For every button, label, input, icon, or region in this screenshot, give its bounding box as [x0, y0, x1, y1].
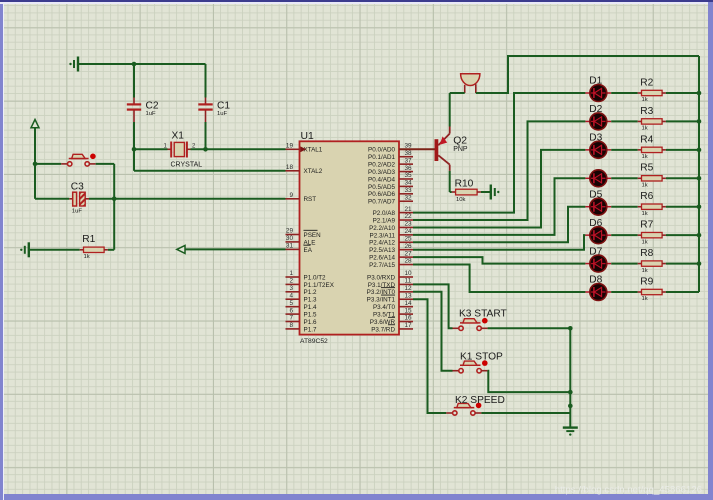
- svg-text:P1.5: P1.5: [304, 312, 317, 319]
- U1 pin 29 PSEN: [286, 228, 322, 239]
- svg-text:C2: C2: [146, 100, 159, 111]
- wire XTAL2 net: [134, 149, 286, 171]
- svg-text:C3: C3: [71, 181, 84, 192]
- svg-text:K1 STOP: K1 STOP: [460, 352, 503, 363]
- U1 pin 5 P1.4: [286, 300, 317, 311]
- U1 pin 12 P3.2/INT0: [367, 285, 413, 296]
- svg-text:11: 11: [405, 278, 412, 285]
- wire D8 to R9: [611, 291, 638, 293]
- power arrow terminal: [31, 120, 39, 164]
- svg-text:R3: R3: [640, 106, 653, 117]
- buzzer: [461, 74, 480, 93]
- svg-text:C1: C1: [217, 100, 230, 111]
- resistor R8: [638, 248, 666, 274]
- svg-text:3: 3: [289, 285, 293, 292]
- svg-text:P0.7/AD7: P0.7/AD7: [368, 199, 395, 206]
- capacitor C3: [35, 181, 89, 214]
- svg-text:28: 28: [405, 258, 413, 265]
- wire P2.4 to D5: [413, 207, 585, 243]
- svg-text:PSEN: PSEN: [304, 232, 322, 239]
- svg-text:D3: D3: [589, 133, 602, 144]
- svg-text:P2.4/A12: P2.4/A12: [369, 240, 395, 247]
- capacitor C1: [198, 64, 230, 149]
- wire K1 to bus: [488, 371, 571, 392]
- U1 pin 18 XTAL2: [286, 164, 323, 175]
- svg-text:P2.1/A9: P2.1/A9: [373, 217, 396, 224]
- svg-text:21: 21: [405, 206, 413, 213]
- svg-text:22: 22: [405, 213, 413, 220]
- junction: [697, 119, 702, 124]
- svg-text:32: 32: [405, 194, 413, 201]
- svg-text:1k: 1k: [642, 211, 648, 217]
- svg-text:1k: 1k: [642, 182, 648, 188]
- U1 pin 19 XTAL1: [286, 143, 323, 154]
- U1 pin 23 P2.2/A10: [369, 221, 413, 232]
- svg-text:AT89C52: AT89C52: [300, 338, 328, 345]
- wire D2 to R3: [611, 120, 638, 122]
- wire buzzer left to emitter: [450, 92, 465, 94]
- junction: [112, 197, 117, 202]
- wire bus to ground: [569, 328, 571, 427]
- watermark text: [555, 485, 702, 496]
- wire XTAL1 net: [134, 148, 286, 150]
- svg-text:P0.1/AD1: P0.1/AD1: [368, 154, 395, 161]
- wire R4 to bus: [666, 149, 699, 151]
- wire R2 to bus: [666, 92, 699, 94]
- wire EA: [185, 248, 286, 250]
- svg-text:6: 6: [289, 307, 293, 314]
- svg-text:XTAL1: XTAL1: [304, 147, 323, 154]
- svg-text:D1: D1: [589, 76, 602, 87]
- svg-text:19: 19: [286, 143, 294, 150]
- ground: [69, 57, 78, 72]
- resistor R9: [638, 276, 666, 302]
- transistor Q2 PNP: [435, 127, 468, 171]
- wire button to vertical: [96, 164, 115, 250]
- svg-text:D5: D5: [589, 189, 602, 200]
- svg-text:34: 34: [405, 180, 413, 187]
- U1 pin 33 P0.6/AD6: [368, 187, 413, 198]
- LED D8: [585, 275, 611, 301]
- U1 pin 25 P2.4/A12: [369, 235, 413, 246]
- junction: [568, 404, 573, 409]
- svg-text:10k: 10k: [456, 197, 466, 203]
- LED D6: [585, 218, 611, 244]
- crystal X1: [163, 131, 202, 169]
- U1 pin 7 P1.6: [286, 315, 317, 326]
- push button K1 STOP: [453, 352, 504, 373]
- svg-text:7: 7: [289, 315, 293, 322]
- junction: [697, 261, 702, 266]
- resistor R3: [638, 106, 666, 132]
- LED D2: [585, 104, 611, 130]
- svg-text:R10: R10: [455, 179, 474, 190]
- U1 pin 10 P3.0/RXD: [367, 270, 413, 281]
- svg-text:P1.2: P1.2: [304, 289, 317, 296]
- wire right bus: [698, 56, 700, 292]
- resistor R4: [638, 134, 666, 160]
- svg-text:R7: R7: [640, 220, 653, 231]
- svg-text:PNP: PNP: [453, 146, 468, 153]
- junction: [697, 233, 702, 238]
- svg-text:D8: D8: [589, 275, 602, 286]
- svg-text:1k: 1k: [642, 97, 648, 103]
- svg-text:R8: R8: [640, 248, 653, 259]
- U1 pin 21 P2.0/A8: [373, 206, 413, 217]
- wire D6 to R7: [611, 234, 638, 236]
- svg-text:P1.1/T2EX: P1.1/T2EX: [304, 282, 335, 289]
- resistor R1: [80, 234, 108, 260]
- LED D4: [585, 170, 611, 187]
- svg-text:P0.3/AD3: P0.3/AD3: [368, 169, 395, 176]
- svg-text:31: 31: [286, 243, 294, 250]
- U1 pin 15 P3.5/T1: [373, 307, 413, 318]
- U1 pin 3 P1.2: [286, 285, 317, 296]
- junction: [33, 162, 38, 167]
- wire P2.0 to D1: [413, 93, 585, 213]
- wire P2.5 to D6: [413, 235, 585, 250]
- svg-text:25: 25: [405, 235, 413, 242]
- junction: [697, 204, 702, 209]
- svg-text:CRYSTAL: CRYSTAL: [171, 161, 203, 168]
- svg-text:X1: X1: [172, 131, 185, 142]
- U1 pin 28 P2.7/A15: [369, 258, 413, 269]
- wire P2.3 to D4: [413, 178, 585, 235]
- wire R1 to vertical: [108, 249, 114, 251]
- wire K2 to bus: [481, 412, 570, 414]
- svg-text:16: 16: [405, 315, 413, 322]
- svg-text:1k: 1k: [642, 296, 648, 302]
- svg-text:14: 14: [405, 300, 413, 307]
- resistor R2: [638, 77, 666, 103]
- svg-text:38: 38: [405, 150, 413, 157]
- LED D3: [585, 133, 611, 159]
- wire P3.3 to K2: [413, 299, 446, 413]
- U1 pin 34 P0.5/AD5: [368, 180, 413, 191]
- junction: [203, 147, 208, 152]
- svg-text:P1.3: P1.3: [304, 297, 317, 304]
- svg-text:37: 37: [405, 157, 413, 164]
- capacitor C2: [127, 64, 159, 149]
- svg-text:D2: D2: [589, 104, 602, 115]
- resistor R10: [452, 179, 481, 204]
- LED D7: [585, 246, 611, 272]
- svg-text:P2.6/A14: P2.6/A14: [369, 255, 395, 262]
- U1 pin 4 P1.3: [286, 292, 317, 303]
- U1 pin 31 EA: [286, 243, 313, 254]
- svg-text:P2.0/A8: P2.0/A8: [373, 210, 396, 217]
- U1 pin 30 ALE: [286, 235, 316, 246]
- svg-text:P0.4/AD4: P0.4/AD4: [368, 176, 395, 183]
- svg-text:P1.4: P1.4: [304, 304, 317, 311]
- svg-text:https://blog.csdn.net/qq_45866: https://blog.csdn.net/qq_45866126: [555, 485, 702, 496]
- LED D5: [585, 189, 611, 215]
- svg-text:D6: D6: [589, 218, 602, 229]
- wire K3 to bus: [488, 327, 571, 329]
- wire R7 to bus: [666, 234, 699, 236]
- svg-text:P0.6/AD6: P0.6/AD6: [368, 191, 395, 198]
- wire P0.0 to Q2 base: [399, 148, 435, 150]
- svg-text:2: 2: [289, 278, 293, 285]
- svg-text:EA: EA: [304, 247, 313, 254]
- svg-text:D7: D7: [589, 246, 602, 257]
- junction: [697, 91, 702, 96]
- junction: [132, 147, 137, 152]
- wire D5 to R6: [611, 206, 638, 208]
- U1 pin 26 P2.5/A13: [369, 243, 413, 254]
- LED D1: [585, 76, 611, 102]
- wire C3 to RST: [89, 198, 286, 200]
- U1 pin 39 P0.0/AD0: [368, 143, 413, 154]
- svg-text:P0.2/AD2: P0.2/AD2: [368, 162, 395, 169]
- svg-text:P2.5/A13: P2.5/A13: [369, 247, 395, 254]
- wire R10 to ground: [481, 191, 491, 193]
- wire buzzer right to top rail: [476, 56, 699, 93]
- svg-text:R9: R9: [640, 276, 653, 287]
- wire P3.1 to K3: [413, 284, 453, 328]
- svg-text:P3.0/RXD: P3.0/RXD: [367, 274, 395, 281]
- svg-text:XTAL2: XTAL2: [304, 168, 323, 175]
- wire D7 to R8: [611, 263, 638, 265]
- push button K3 START: [453, 309, 507, 331]
- svg-text:1k: 1k: [84, 254, 90, 260]
- svg-text:24: 24: [405, 228, 413, 235]
- wire R8 to bus: [666, 263, 699, 265]
- U1 pin 37 P0.2/AD2: [368, 157, 413, 168]
- svg-text:P3.3/INT1: P3.3/INT1: [367, 297, 396, 304]
- svg-text:1k: 1k: [642, 239, 648, 245]
- svg-text:26: 26: [405, 243, 413, 250]
- svg-text:18: 18: [286, 164, 294, 171]
- svg-text:P0.0/AD0: P0.0/AD0: [368, 147, 395, 154]
- svg-text:K3 START: K3 START: [459, 309, 507, 320]
- svg-text:P3.4/T0: P3.4/T0: [373, 304, 396, 311]
- XTAL1 clock arrow: [300, 146, 306, 152]
- wire R5 to bus: [666, 177, 699, 179]
- svg-text:33: 33: [405, 187, 413, 194]
- svg-text:1uF: 1uF: [146, 111, 157, 117]
- svg-text:4: 4: [289, 292, 293, 299]
- svg-text:P2.7/A15: P2.7/A15: [369, 262, 395, 269]
- svg-text:1k: 1k: [642, 126, 648, 132]
- junction: [568, 326, 573, 331]
- svg-text:17: 17: [405, 322, 413, 329]
- U1 pin 38 P0.1/AD1: [368, 150, 413, 161]
- wire to reset button: [35, 163, 61, 165]
- svg-text:R1: R1: [82, 234, 95, 245]
- junction: [132, 62, 137, 67]
- svg-text:5: 5: [289, 300, 293, 307]
- svg-text:Q2: Q2: [453, 135, 467, 146]
- svg-text:K2 SPEED: K2 SPEED: [455, 395, 505, 406]
- svg-text:30: 30: [286, 235, 294, 242]
- wire top rail to C2/C1: [78, 63, 206, 65]
- svg-text:29: 29: [286, 228, 294, 235]
- push button K2 SPEED: [446, 395, 505, 415]
- wire D3 to R4: [611, 149, 638, 151]
- svg-text:R4: R4: [640, 134, 653, 145]
- resistor R5: [638, 163, 666, 189]
- svg-text:1uF: 1uF: [217, 111, 228, 117]
- svg-text:15: 15: [405, 307, 413, 314]
- wire Q2 emitter up: [449, 93, 451, 127]
- svg-text:R2: R2: [640, 77, 653, 88]
- ground: [20, 242, 29, 257]
- svg-text:P0.5/AD5: P0.5/AD5: [368, 184, 395, 191]
- svg-text:1k: 1k: [642, 268, 648, 274]
- arrow terminal (EA): [177, 245, 185, 253]
- svg-text:P1.6: P1.6: [304, 319, 317, 326]
- wire P3.2 to K1: [413, 292, 453, 371]
- svg-text:P3.7/RD: P3.7/RD: [371, 326, 395, 333]
- svg-text:R5: R5: [640, 163, 653, 174]
- svg-text:P2.2/A10: P2.2/A10: [369, 225, 395, 232]
- U1 pin 14 P3.4/T0: [373, 300, 413, 311]
- U1 pin 35 P0.4/AD4: [368, 172, 413, 183]
- IC U1 AT89C52: [300, 131, 400, 345]
- U1 pin 22 P2.1/A9: [373, 213, 413, 224]
- U1 pin 11 P3.1/TXD: [368, 278, 413, 289]
- svg-text:35: 35: [405, 172, 413, 179]
- ground: [563, 428, 578, 436]
- resistor R7: [638, 220, 666, 246]
- junction: [697, 148, 702, 153]
- U1 pin 36 P0.3/AD3: [368, 165, 413, 176]
- svg-text:10: 10: [405, 270, 413, 277]
- resistor R6: [638, 191, 666, 217]
- wire rail to C3 line: [34, 164, 36, 199]
- wire R6 to bus: [666, 206, 699, 208]
- U1 pin 9 RST: [286, 192, 317, 203]
- U1 pin 17 P3.7/RD: [371, 322, 413, 333]
- svg-text:1uF: 1uF: [72, 208, 83, 214]
- svg-text:R6: R6: [640, 191, 653, 202]
- U1 pin 2 P1.1/T2EX: [286, 278, 335, 289]
- svg-text:36: 36: [405, 165, 413, 172]
- wire D4 to R5: [611, 177, 638, 179]
- U1 pin 1 P1.0/T2: [286, 270, 327, 281]
- svg-text:RST: RST: [304, 196, 317, 203]
- wire D1 to R2: [611, 92, 638, 94]
- svg-text:8: 8: [289, 322, 293, 329]
- U1 pin 16 P3.6/WR: [370, 315, 413, 326]
- svg-text:27: 27: [405, 250, 413, 257]
- svg-text:1: 1: [289, 270, 293, 277]
- svg-text:9: 9: [289, 192, 293, 199]
- svg-text:12: 12: [405, 285, 413, 292]
- svg-text:1k: 1k: [642, 154, 648, 160]
- junction: [697, 176, 702, 181]
- push button (reset): [61, 154, 95, 167]
- svg-text:P1.0/T2: P1.0/T2: [304, 274, 327, 281]
- U1 pin 6 P1.5: [286, 307, 317, 318]
- wire R3 to bus: [666, 120, 699, 122]
- wire P2.6 to D7: [413, 257, 585, 263]
- wire Q2 collector down: [450, 171, 452, 192]
- U1 pin 8 P1.7: [286, 322, 317, 333]
- svg-text:13: 13: [405, 292, 413, 299]
- svg-text:23: 23: [405, 221, 413, 228]
- svg-text:P1.7: P1.7: [304, 326, 317, 333]
- U1 pin 13 P3.3/INT1: [367, 292, 413, 303]
- wire P2.7 to D8: [413, 265, 585, 292]
- ground: [491, 185, 500, 200]
- wire P2.1 to D2: [413, 121, 585, 220]
- wire P2.2 to D3: [413, 150, 585, 228]
- U1 pin 24 P2.3/A11: [370, 228, 413, 239]
- svg-text:U1: U1: [301, 131, 315, 142]
- wire R9 to bus: [666, 291, 699, 293]
- U1 pin 32 P0.7/AD7: [368, 194, 413, 205]
- junction: [568, 390, 573, 395]
- wire ground to R1: [29, 249, 80, 251]
- U1 pin 27 P2.6/A14: [369, 250, 413, 261]
- svg-text:P2.3/A11: P2.3/A11: [370, 232, 396, 239]
